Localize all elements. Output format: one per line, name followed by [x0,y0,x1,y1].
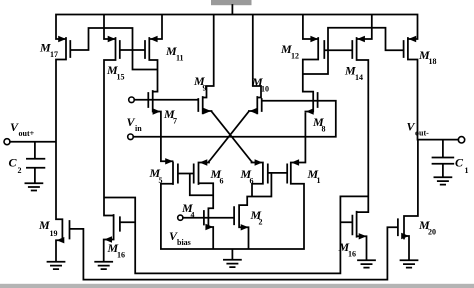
svg-text:14: 14 [355,73,363,82]
svg-text:6: 6 [250,177,254,186]
svg-text:out-: out- [415,129,429,138]
svg-text:2: 2 [259,218,263,227]
svg-text:2: 2 [18,166,22,175]
svg-text:4: 4 [191,211,195,220]
svg-text:12: 12 [291,52,299,61]
svg-text:20: 20 [428,228,436,237]
svg-text:16: 16 [117,251,125,260]
svg-text:17: 17 [50,50,58,59]
svg-text:7: 7 [173,117,177,126]
svg-text:5: 5 [159,176,163,185]
svg-text:bias: bias [177,238,191,247]
svg-text:1: 1 [317,176,321,185]
svg-text:16: 16 [348,250,356,259]
svg-text:C: C [455,156,464,170]
svg-text:8: 8 [322,125,326,134]
svg-text:15: 15 [117,73,125,82]
svg-text:10: 10 [261,85,269,94]
svg-text:M: M [38,218,50,232]
svg-text:1: 1 [465,166,469,175]
svg-text:19: 19 [50,229,58,238]
svg-text:out+: out+ [19,129,35,138]
svg-text:18: 18 [429,57,437,66]
svg-text:11: 11 [176,54,184,63]
svg-text:in: in [135,124,142,133]
svg-text:6: 6 [220,177,224,186]
svg-text:C: C [9,156,18,170]
svg-text:9: 9 [203,84,207,93]
